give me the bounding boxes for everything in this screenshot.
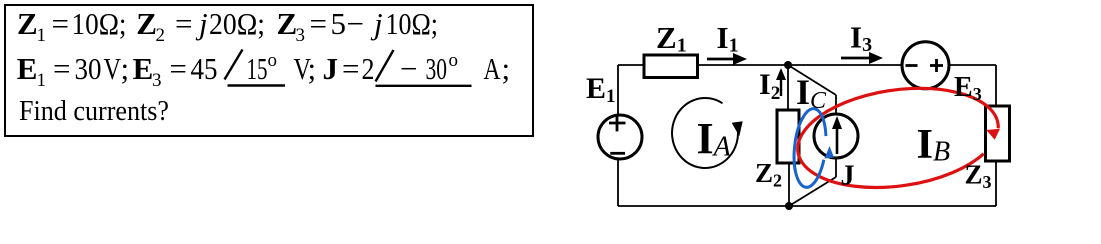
svg-text:=: = [52, 6, 69, 41]
svg-text:;: ; [502, 51, 511, 86]
svg-text:;: ; [121, 51, 130, 86]
svg-text:10Ω;: 10Ω; [386, 6, 439, 41]
svg-text:−: − [400, 51, 417, 86]
svg-text:20Ω;: 20Ω; [209, 6, 265, 41]
svg-text:I3: I3 [850, 20, 872, 57]
svg-text:=: = [310, 6, 327, 41]
svg-text:30: 30 [75, 51, 102, 86]
svg-text:J: J [323, 51, 339, 86]
svg-text:Z: Z [277, 6, 298, 41]
svg-text:IA: IA [697, 114, 732, 163]
svg-text:Z: Z [136, 6, 157, 41]
svg-text:Z1: Z1 [656, 20, 687, 57]
svg-text:2: 2 [362, 51, 375, 86]
svg-text:IB: IB [917, 121, 951, 168]
svg-text:=: = [169, 51, 186, 86]
svg-text:10Ω;: 10Ω; [72, 6, 127, 41]
svg-text:1: 1 [37, 25, 47, 46]
svg-text:o: o [449, 50, 459, 71]
svg-text:E3: E3 [954, 72, 982, 104]
svg-text:IC: IC [796, 72, 827, 114]
svg-text:1: 1 [37, 70, 47, 91]
svg-text:Z: Z [17, 6, 38, 41]
svg-text:E: E [133, 51, 154, 86]
svg-text:15: 15 [247, 51, 268, 86]
svg-text:45: 45 [191, 51, 218, 86]
svg-text:E: E [17, 51, 38, 86]
svg-text:I1: I1 [717, 20, 739, 57]
svg-text:3: 3 [296, 25, 306, 46]
svg-text:o: o [268, 50, 278, 71]
svg-text:5: 5 [331, 6, 347, 41]
svg-text:3: 3 [152, 70, 162, 91]
svg-text:Find currents?: Find currents? [19, 96, 169, 127]
svg-text:j: j [195, 6, 208, 41]
svg-text:V: V [104, 51, 122, 86]
svg-text:E1: E1 [586, 72, 616, 107]
svg-text:=: = [53, 51, 70, 86]
svg-text:j: j [370, 6, 383, 41]
svg-text:30: 30 [426, 51, 448, 86]
svg-text:J: J [841, 161, 855, 192]
svg-text:=: = [175, 6, 192, 41]
svg-text:=: = [342, 51, 359, 86]
svg-text:A: A [484, 51, 501, 86]
svg-text:2: 2 [156, 25, 166, 46]
svg-text:−: − [347, 6, 364, 41]
svg-text:;: ; [308, 51, 317, 86]
svg-text:Z3: Z3 [965, 160, 992, 193]
svg-text:I2: I2 [759, 68, 780, 104]
